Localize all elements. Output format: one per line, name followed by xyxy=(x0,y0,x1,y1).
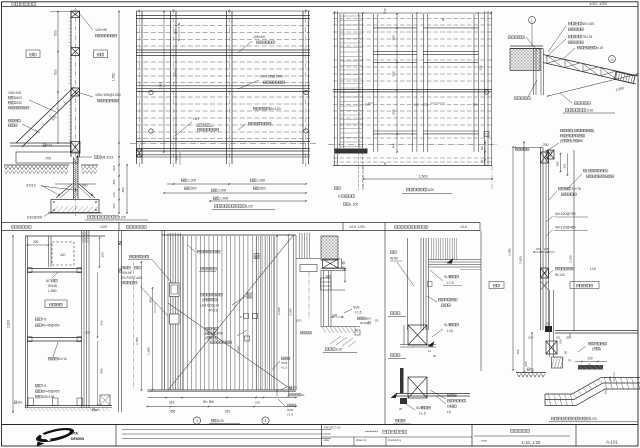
right section: long vertical xyxy=(573,150,575,331)
center column: corner verticals xyxy=(421,238,429,330)
svg-text:LH2-B031-H: LH2-B031-H xyxy=(200,304,219,308)
svg-text:20: 20 xyxy=(383,8,387,12)
right section: deck line xyxy=(555,330,638,332)
svg-text:405: 405 xyxy=(392,143,396,148)
svg-text:700: 700 xyxy=(45,157,51,161)
elevation A: centerline dash-dot xyxy=(130,143,316,145)
left section: vertical dim line 500/500 xyxy=(57,11,59,143)
door: left jamb boards xyxy=(168,233,181,390)
plan B: top dim line xyxy=(333,12,492,14)
svg-text:):: ): xyxy=(607,169,609,173)
left section: dim line 1780 xyxy=(118,11,120,143)
svg-text:120: 120 xyxy=(473,102,478,106)
svg-text:1:10, 1:20: 1:10, 1:20 xyxy=(522,440,541,445)
svg-text:450: 450 xyxy=(121,187,125,192)
svg-text:SS-POST-A02: SS-POST-A02 xyxy=(121,276,142,280)
detail yuu: dim 1500 along slope xyxy=(548,74,637,96)
mid column: title 平縦面 1/10 xyxy=(325,348,342,352)
svg-text:40×120@750: 40×120@750 xyxy=(555,212,576,216)
left section: title 中庭目隠し壁詳細図 1/20 xyxy=(87,215,126,219)
svg-text:date: date xyxy=(324,438,330,442)
svg-text:200: 200 xyxy=(112,165,116,170)
plan B: title 中桟木製建具 1/20 xyxy=(406,188,434,192)
svg-text:1/20: 1/20 xyxy=(119,215,126,219)
svg-text:13: 13 xyxy=(610,58,614,62)
svg-text:150: 150 xyxy=(608,376,612,381)
svg-text:SUS: SUS xyxy=(353,306,360,310)
svg-text:1,780: 1,780 xyxy=(112,73,116,82)
svg-text:t-1.5: t-1.5 xyxy=(287,413,293,417)
elevation A: top rail double xyxy=(136,15,310,17)
plan B: bottom edge xyxy=(333,165,492,167)
right section: dim 150 115 xyxy=(534,251,555,253)
elevation A: left dim line xyxy=(163,11,165,152)
svg-text:t-1.5: t-1.5 xyxy=(355,311,362,315)
svg-text:t-15: t-15 xyxy=(590,267,596,271)
left section: ground hatch band xyxy=(4,164,69,166)
svg-text:2,050: 2,050 xyxy=(288,308,292,316)
svg-text::1,000: :1,000 xyxy=(187,179,196,183)
center column detail3: title 収納面 xyxy=(395,419,405,422)
right section: footing block hatched xyxy=(552,357,563,368)
door: right dense boards xyxy=(256,236,274,390)
svg-text:105: 105 xyxy=(85,331,90,335)
closet: shelf1 xyxy=(28,268,82,270)
svg-text:M1-D13: M1-D13 xyxy=(101,156,114,160)
door: label ドアクローザー xyxy=(197,250,220,253)
svg-text:315: 315 xyxy=(169,401,175,405)
detail yuu: label ボルト留め xyxy=(514,97,530,100)
band: rules xyxy=(2,222,480,224)
plan B: mid rails full width xyxy=(333,88,492,90)
door: right jamb xyxy=(294,235,297,390)
svg-text:1/10: 1/10 xyxy=(460,225,467,229)
svg-text:100: 100 xyxy=(604,389,608,394)
svg-text:360: 360 xyxy=(112,179,116,184)
svg-text:AC: AC xyxy=(46,279,51,283)
svg-text:180: 180 xyxy=(556,161,560,166)
mid column: node box xyxy=(355,330,360,335)
elevation A: label 杉板下見張 xyxy=(253,107,280,111)
closet: label AC 室外機 xyxy=(46,279,57,283)
svg-text:300: 300 xyxy=(149,298,153,303)
svg-text:1/10, 1/20: 1/10, 1/20 xyxy=(589,1,608,6)
center column: corner horizontals xyxy=(429,260,482,268)
svg-text:|19: |19 xyxy=(556,336,560,340)
mid column: slope hatch lines xyxy=(330,336,356,347)
door: leaf frame edges xyxy=(182,236,184,390)
svg-text:W-402: W-402 xyxy=(360,321,369,325)
svg-text:SUS: SUS xyxy=(444,323,452,327)
right section: top X-braces xyxy=(541,152,549,163)
right section: label 側キシラデコール xyxy=(583,169,608,173)
svg-text:-R+23: -R+23 xyxy=(208,309,217,313)
door: swing diagonals xyxy=(168,235,294,390)
svg-text:1/20: 1/20 xyxy=(590,417,597,421)
door: top line xyxy=(162,234,296,236)
closet: dim 300 xyxy=(99,238,101,267)
svg-text:DESIGN: DESIGN xyxy=(71,437,85,441)
svg-text:45×45@450: 45×45@450 xyxy=(41,324,59,328)
svg-text:YEKAP: YEKAP xyxy=(121,271,133,275)
center column detail3: label ケイ酸 xyxy=(447,394,456,397)
door: label 金属折戸 xyxy=(205,327,217,330)
svg-text:T-9: T-9 xyxy=(41,318,46,322)
svg-text:200: 200 xyxy=(33,240,39,244)
center column detail2: label SUS xyxy=(444,323,459,327)
elevation A: rail bottom band xyxy=(136,141,310,143)
door: bottom dim row1 xyxy=(148,397,297,399)
svg-text:105×105: 105×105 xyxy=(8,91,21,95)
svg-text:):: ): xyxy=(593,129,595,133)
svg-text:120: 120 xyxy=(414,102,419,106)
svg-text:95: 95 xyxy=(564,351,568,354)
title block: revision lines xyxy=(122,430,331,439)
svg-text:4: 4 xyxy=(196,419,198,423)
svg-text:150: 150 xyxy=(559,339,563,344)
svg-text:25: 25 xyxy=(546,322,550,326)
svg-text:L-850: L-850 xyxy=(48,289,57,293)
left section: ground beam xyxy=(10,142,71,144)
svg-text:********: ******** xyxy=(365,430,378,435)
svg-text:2,190: 2,190 xyxy=(569,255,573,263)
svg-text:t-15: t-15 xyxy=(447,329,453,333)
svg-text:120×120: 120×120 xyxy=(197,123,210,127)
svg-text:W=120: W=120 xyxy=(270,107,281,111)
right section: dim 2490 xyxy=(512,147,514,370)
center column detail3: label SUS鋭切り xyxy=(416,406,431,410)
header title 目隠し壁詳細 xyxy=(12,2,36,5)
right section: dim 2625 xyxy=(523,142,525,372)
svg-text:1FL: 1FL xyxy=(292,386,298,390)
svg-text:W= 900: W= 900 xyxy=(203,400,214,404)
center column: weld mark xyxy=(428,282,433,287)
header rule xyxy=(2,6,638,8)
right section: GL mark xyxy=(527,368,534,372)
door: 1FL marks xyxy=(289,386,297,390)
plan B: inner dim line xyxy=(396,14,398,152)
svg-text:75×75: 75×75 xyxy=(582,35,592,39)
svg-text:500: 500 xyxy=(54,30,58,36)
elevation A: bottom dim row3 xyxy=(210,200,306,202)
center column: title 待受面 xyxy=(390,312,400,315)
closet: label 棚の板 10x10 xyxy=(48,357,67,361)
left section: post X-brace top xyxy=(71,11,80,18)
closet: 1FL mark xyxy=(14,401,23,405)
svg-text:drawn by: drawn by xyxy=(356,438,367,442)
elevation A: rail band 2 triple xyxy=(136,49,310,51)
plan B: centerline dash-dot xyxy=(328,144,497,146)
svg-text:5: 5 xyxy=(265,419,267,423)
title block: drawing name cell xyxy=(510,429,529,432)
right section: boxed 手洗 xyxy=(489,282,504,289)
door: right labels 吊金り xyxy=(281,357,290,359)
svg-text:1/20: 1/20 xyxy=(246,205,253,209)
logo: OTA DESIGN swoosh xyxy=(34,425,76,446)
svg-text:2030: 2030 xyxy=(14,101,22,105)
mid column: lower wall boards xyxy=(321,271,331,327)
svg-text:scale: scale xyxy=(481,439,488,443)
svg-text:90×105@1000: 90×105@1000 xyxy=(260,75,283,79)
door: left wall edge xyxy=(162,230,165,390)
band: cell 広間ドア詳細 xyxy=(126,226,146,229)
center column: long vertical xyxy=(407,238,409,330)
svg-text:170: 170 xyxy=(112,192,116,197)
svg-text::800: :800 xyxy=(259,187,265,191)
closet: right floor detail xyxy=(100,395,110,406)
door: post box xyxy=(170,314,180,324)
svg-text:(1F): (1F) xyxy=(528,336,534,340)
closet: left dim 2200 xyxy=(12,236,14,412)
center column detail3: post bar xyxy=(400,368,404,393)
door: leaf boards xyxy=(183,236,274,390)
closet: boxed 物置押入 xyxy=(45,300,67,308)
left section: buried post with hatch xyxy=(73,157,75,199)
svg-text:D:: D: xyxy=(338,195,341,199)
svg-text:450: 450 xyxy=(516,349,520,354)
elevation A: label アンカーボルト xyxy=(248,122,271,125)
detail yuu: sloped beam xyxy=(543,55,638,77)
mid column: crosshatch wall xyxy=(321,236,338,260)
svg-text:L-100: L-100 xyxy=(350,203,359,207)
svg-text:): ) xyxy=(217,298,218,302)
svg-text:T-9: T-9 xyxy=(41,384,46,388)
svg-text:500: 500 xyxy=(54,69,58,75)
plan B: ladder dashed pair xyxy=(359,13,363,190)
door: left dashed centerline xyxy=(133,262,135,390)
detail yuu: label 杉板下見板桟 xyxy=(577,46,603,50)
center column: arrow mark xyxy=(447,259,453,264)
band: cell 物置押入詳細 1/20 xyxy=(11,226,31,229)
svg-text:SUS: SUS xyxy=(281,361,287,365)
center column detail2: counter lines xyxy=(400,344,436,346)
elevation A: posts xyxy=(137,11,143,164)
svg-text::1,400: :1,400 xyxy=(219,197,228,201)
right section: dim 100 xyxy=(575,361,607,363)
right section: dim 450 225 xyxy=(531,333,533,372)
svg-text:75×75: 75×75 xyxy=(571,187,581,191)
left section: post X-brace mid1 xyxy=(71,48,80,56)
plan B: rect column R xyxy=(423,14,478,152)
elevation A: label 105x60 xyxy=(238,41,252,53)
elevation A: post1 X-brace xyxy=(137,149,143,157)
svg-text:1,650: 1,650 xyxy=(147,347,151,355)
left section: label 105x105@1000 xyxy=(80,93,93,97)
door: label ピンユーム xyxy=(200,267,216,270)
detail yuu: wall verticals xyxy=(534,49,544,96)
plan B: ladder post xyxy=(340,14,363,148)
svg-text:20: 20 xyxy=(441,17,445,21)
divider vertical right xyxy=(480,231,482,372)
door: label レバーハンドル xyxy=(200,293,222,296)
title block: top rule xyxy=(2,424,638,426)
closet: label 小柱 T-9 45x45 xyxy=(35,318,46,322)
door: left dim lines xyxy=(141,262,143,390)
detail yuu: node circle 13 xyxy=(609,56,616,63)
svg-text:225: 225 xyxy=(524,361,528,366)
center column detail2: title 吊子面 xyxy=(390,354,400,357)
svg-text:1/10, 1/20: 1/10, 1/20 xyxy=(349,225,365,229)
svg-text:=90: =90 xyxy=(218,332,224,336)
svg-text:W-120: W-120 xyxy=(555,273,565,277)
svg-text:25: 25 xyxy=(399,407,403,411)
detail yuu: slope end hatch xyxy=(614,72,635,84)
svg-text:25: 25 xyxy=(433,354,436,358)
svg-text:2,490: 2,490 xyxy=(508,248,512,256)
detail yuu: title xyxy=(565,109,593,113)
door: label ポスト壁型 xyxy=(121,266,140,269)
closet: top line xyxy=(25,235,105,237)
door: right dim lines 2040 2050 xyxy=(276,236,278,396)
left section: label トD13 xyxy=(43,144,52,148)
svg-text:50×50: 50×50 xyxy=(48,284,57,288)
svg-text:t-1.5: t-1.5 xyxy=(419,412,426,416)
svg-text:1,088: 1,088 xyxy=(237,346,241,354)
svg-text:500: 500 xyxy=(392,71,396,76)
elevation A: bottom dim row1 xyxy=(167,183,306,185)
elevation A: title 中庭目隠し壁建面図 1/20 xyxy=(214,205,253,209)
elevation A: bottom board edge xyxy=(136,154,310,156)
center column: corner top boards xyxy=(432,238,457,260)
svg-text:455: 455 xyxy=(170,410,176,414)
svg-text:(1F): (1F) xyxy=(296,319,302,323)
svg-text:20: 20 xyxy=(383,161,387,165)
door: label インターホン xyxy=(129,255,148,258)
door: right small section xyxy=(300,233,310,258)
svg-text:910: 910 xyxy=(225,410,231,414)
door: intercom box xyxy=(170,283,180,297)
title block: sheet number cell xyxy=(575,425,577,447)
closet: AC dashed box xyxy=(52,242,74,265)
right section: label 杉板下見張桟 xyxy=(555,267,574,270)
svg-text:105×105@1000: 105×105@1000 xyxy=(95,93,121,97)
svg-text:1,250: 1,250 xyxy=(135,337,139,345)
svg-text:280: 280 xyxy=(175,155,179,160)
right section: dim 180 202 xyxy=(560,154,562,172)
svg-text:1FL: 1FL xyxy=(17,401,23,405)
svg-text:t-1.5: t-1.5 xyxy=(281,366,287,370)
center column detail3: counter xyxy=(396,393,470,395)
svg-text:100: 100 xyxy=(587,357,593,361)
svg-text:checked by: checked by xyxy=(388,438,402,442)
left section: base slab hatched xyxy=(51,200,99,213)
elevation A: board lines xyxy=(136,26,310,47)
closet: shelf2 xyxy=(28,337,82,339)
detail yuu: node circle L xyxy=(529,17,536,24)
detail yuu: wall crosshatch box xyxy=(510,49,540,71)
left section: siding board ticks on post xyxy=(69,18,71,140)
svg-text:|20|: |20| xyxy=(566,336,571,340)
band: cell 広間入り口縦断り詳細 1/10 xyxy=(394,226,428,229)
left section: post X-brace at beam xyxy=(71,142,81,154)
svg-text:t-1.5: t-1.5 xyxy=(447,281,454,285)
svg-text:1/20: 1/20 xyxy=(100,225,107,229)
svg-text:1/20: 1/20 xyxy=(427,188,434,192)
svg-text:-25: -25 xyxy=(374,319,379,323)
detail yuu: label シーリング xyxy=(508,36,524,39)
right section: dim 250 xyxy=(515,147,541,149)
svg-text:115: 115 xyxy=(544,247,549,251)
plan B: right edge small dims xyxy=(484,140,486,166)
door: grid bubbles 4 5 xyxy=(193,417,200,424)
svg-text:2,625: 2,625 xyxy=(519,256,523,264)
plan B: legend xyxy=(334,187,340,190)
detail yuu: label アングル50x100 xyxy=(568,22,594,26)
svg-text:1/20: 1/20 xyxy=(217,419,224,423)
svg-text:250: 250 xyxy=(543,143,549,147)
right section: label 防水モルタル xyxy=(588,342,606,345)
svg-text:380: 380 xyxy=(174,29,178,34)
plan B: node box D xyxy=(484,132,489,137)
svg-text:35: 35 xyxy=(568,359,572,362)
svg-text:D: D xyxy=(240,315,242,319)
plan B: dim 1500 xyxy=(364,178,493,180)
svg-text:500: 500 xyxy=(82,184,88,188)
svg-text:120: 120 xyxy=(332,313,337,317)
mid column: lintel lines xyxy=(321,268,347,270)
divider vertical mid xyxy=(384,231,386,425)
right section: stepped deck slab xyxy=(545,378,640,395)
right section: label 笠カバー xyxy=(560,129,595,133)
plan B: rect column M xyxy=(373,14,417,152)
svg-text:202: 202 xyxy=(563,163,567,168)
right section: bottom post X-brace xyxy=(546,341,557,354)
mid column: lintel X-box xyxy=(323,259,339,268)
door: node boxes xyxy=(254,254,259,259)
svg-text:SUS: SUS xyxy=(287,408,293,412)
svg-text:): ) xyxy=(600,347,601,351)
svg-text:120×90: 120×90 xyxy=(95,28,107,32)
svg-text:880: 880 xyxy=(100,368,104,373)
elevation A: bottom dim row2 xyxy=(164,192,306,194)
elevation A: top dim line xyxy=(136,10,310,12)
svg-text:PROJECT NO.: PROJECT NO. xyxy=(324,426,342,430)
svg-text:455: 455 xyxy=(392,35,396,40)
svg-text:D13: D13 xyxy=(46,144,52,148)
door: bottom dim row2 xyxy=(148,406,297,408)
svg-text:1600: 1600 xyxy=(14,96,22,100)
left section: boxed label 中庭 xyxy=(26,50,40,58)
svg-text:±6:1: ±6:1 xyxy=(193,117,199,121)
svg-text:): ) xyxy=(571,139,572,143)
svg-text:A-101: A-101 xyxy=(606,440,618,445)
center column detail2: X-box xyxy=(408,325,427,345)
svg-text:120: 120 xyxy=(112,203,116,208)
center column: label サイディング xyxy=(438,298,457,301)
svg-text:325: 325 xyxy=(479,65,483,70)
svg-text:): ) xyxy=(216,336,217,340)
right section: label アングル75x75 xyxy=(558,187,581,191)
plan B: ladder post bottom bar xyxy=(335,149,368,154)
svg-text:t=15: t=15 xyxy=(596,46,603,50)
detail yuu: wall top plate xyxy=(510,45,543,47)
svg-text:580: 580 xyxy=(174,70,178,75)
closet: right wall xyxy=(82,231,90,408)
detail yuu: label アングル75x75 xyxy=(568,35,592,39)
left section: label 120x90 xyxy=(80,14,93,30)
svg-text:B5: B5 xyxy=(579,139,583,143)
svg-text:65×45@450: 65×45@450 xyxy=(41,390,59,394)
detail yuu: label チョラバン xyxy=(574,102,590,105)
svg-text:150: 150 xyxy=(255,401,260,405)
right section: mid X-braces xyxy=(541,268,549,278)
svg-text:120: 120 xyxy=(423,102,428,106)
svg-text:500: 500 xyxy=(392,109,396,114)
svg-text:L: L xyxy=(531,19,533,23)
svg-text::1,000: :1,000 xyxy=(256,179,265,183)
closet: floor xyxy=(25,405,112,407)
svg-text:M2: M2 xyxy=(95,408,99,412)
